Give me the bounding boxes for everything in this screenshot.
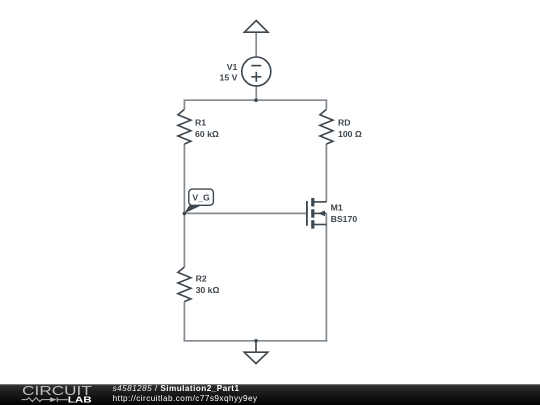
svg-text:RD: RD: [338, 117, 351, 127]
svg-text:M1: M1: [331, 203, 343, 213]
svg-text:100 Ω: 100 Ω: [338, 129, 362, 139]
svg-text:60 kΩ: 60 kΩ: [195, 129, 219, 139]
svg-text:V_G: V_G: [192, 193, 210, 203]
svg-text:15 V: 15 V: [220, 73, 238, 83]
svg-text:R2: R2: [196, 274, 207, 284]
svg-text:V1: V1: [227, 62, 238, 72]
svg-text:BS170: BS170: [331, 214, 358, 224]
svg-text:LAB: LAB: [68, 394, 92, 404]
svg-text:R1: R1: [195, 117, 206, 127]
svg-text:30 kΩ: 30 kΩ: [196, 285, 220, 295]
